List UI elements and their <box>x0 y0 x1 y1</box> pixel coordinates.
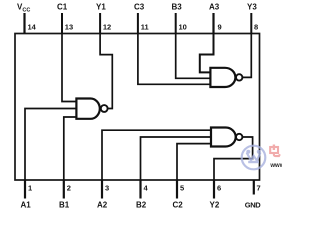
wire Y2 from gate U1b bubble to pin 6 <box>214 137 253 180</box>
svg-text:6: 6 <box>217 184 221 193</box>
IC body outline <box>15 34 260 181</box>
pin 14 lead <box>23 13 25 34</box>
svg-text:8: 8 <box>254 23 258 32</box>
svg-text:GND: GND <box>245 200 261 209</box>
pin 13 lead <box>61 13 63 34</box>
wire B3 from pin 10 to gate U1c middle input <box>176 34 211 79</box>
svg-text:7: 7 <box>257 184 261 193</box>
svg-text:C2: C2 <box>173 201 184 210</box>
pin 6 lead <box>213 180 215 199</box>
svg-text:9: 9 <box>218 23 222 32</box>
wire Y3 from gate U1c bubble to pin 8 <box>242 34 251 78</box>
svg-text:B2: B2 <box>136 201 147 210</box>
svg-text:Y1: Y1 <box>96 3 106 12</box>
wire C1 from pin 13 to gate U1a top input <box>62 34 76 102</box>
svg-text:11: 11 <box>141 23 149 32</box>
wire A3 from pin 9 jog to gate U1c top input <box>200 34 214 73</box>
pin 3 lead <box>101 180 103 199</box>
wire B2 from pin 4 to gate U1b middle input <box>141 137 212 180</box>
wire A1 from pin 1 to gate U1a middle input <box>25 109 76 181</box>
pin 10 lead <box>175 13 177 34</box>
NAND gate U1c body <box>210 68 235 87</box>
pin 2 lead <box>63 180 65 199</box>
svg-text:5: 5 <box>180 184 184 193</box>
svg-text:VCC: VCC <box>17 3 30 14</box>
svg-text:A1: A1 <box>21 201 32 210</box>
svg-text:2: 2 <box>67 184 71 193</box>
svg-text:12: 12 <box>103 23 111 32</box>
NAND gate U1a output bubble <box>101 105 108 112</box>
pin 9 lead <box>212 13 214 34</box>
svg-text:www: www <box>269 163 282 169</box>
watermark red character <box>270 145 280 157</box>
svg-text:4: 4 <box>144 184 149 193</box>
svg-text:B1: B1 <box>59 201 70 210</box>
pin 8 lead <box>250 13 252 34</box>
pin 5 lead <box>176 180 178 199</box>
pin 12 lead <box>99 13 101 34</box>
svg-text:3: 3 <box>105 184 109 193</box>
svg-text:A3: A3 <box>209 3 220 12</box>
watermark logo circle <box>242 146 266 170</box>
pin 1 lead <box>24 180 26 199</box>
wire B1 from pin 2 to gate U1a bottom input <box>64 117 77 180</box>
pin 4 lead <box>139 180 141 199</box>
NAND gate U1c output bubble <box>236 74 242 80</box>
svg-text:A2: A2 <box>97 201 108 210</box>
wire Y1 from gate U1a bubble to pin 12 <box>100 34 112 109</box>
svg-text:1: 1 <box>28 184 32 193</box>
svg-text:10: 10 <box>179 23 187 32</box>
wire C2 from pin 5 to gate U1b bottom input <box>177 144 211 180</box>
svg-text:14: 14 <box>28 23 37 32</box>
NAND gate U1b output bubble <box>236 134 242 140</box>
svg-text:13: 13 <box>65 23 73 32</box>
svg-text:C1: C1 <box>57 3 68 12</box>
pin 7 lead <box>253 180 255 195</box>
svg-text:B3: B3 <box>172 3 183 12</box>
pin 11 lead <box>137 13 139 34</box>
NAND gate U1b body <box>211 128 236 147</box>
svg-text:C3: C3 <box>134 3 145 12</box>
NAND gate U1a body <box>76 99 99 119</box>
wire A2 from pin 3 to gate U1b top input <box>102 130 211 180</box>
svg-text:Y3: Y3 <box>247 3 257 12</box>
wire C3 from pin 11 to gate U1c bottom input <box>138 34 211 85</box>
svg-text:Y2: Y2 <box>210 201 220 210</box>
